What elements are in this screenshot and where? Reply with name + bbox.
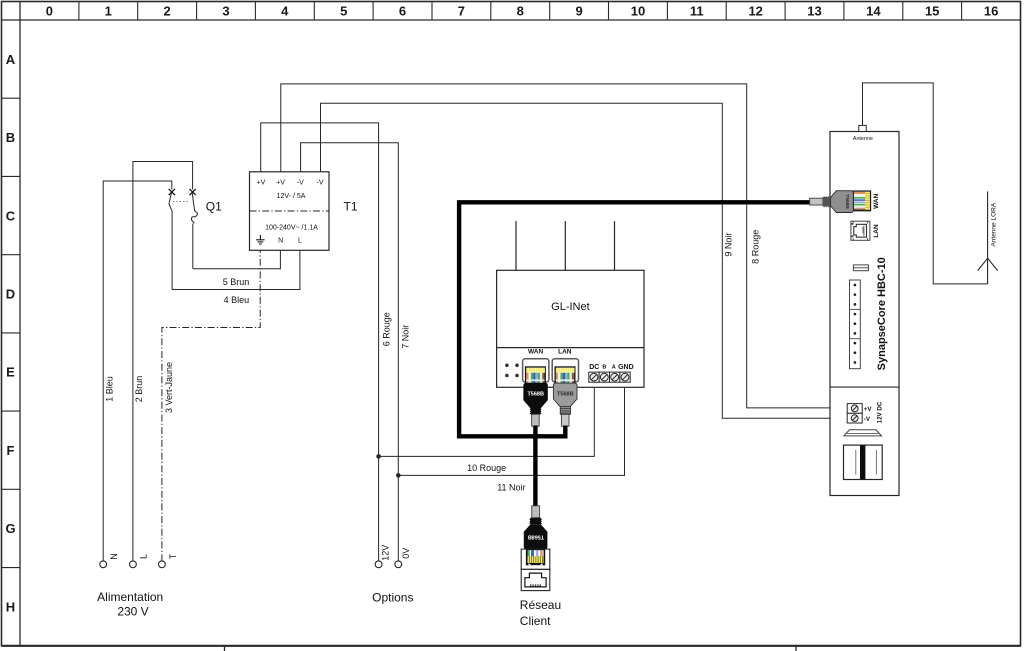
SynapseCore WAN plug T568B (grey, from left) [810, 198, 823, 205]
svg-text:2 Brun: 2 Brun [134, 376, 144, 403]
junction node on 7 Noir [396, 473, 401, 478]
svg-text:8: 8 [517, 4, 524, 19]
terminal T [159, 561, 166, 568]
svg-text:Antenne: Antenne [853, 136, 873, 142]
GL-INet WAN RJ45 jack [523, 359, 549, 382]
svg-text:LAN: LAN [558, 349, 572, 356]
svg-text:12V DC: 12V DC [877, 401, 884, 423]
svg-text:L: L [139, 554, 149, 559]
svg-text:10: 10 [631, 4, 645, 19]
LAN plug T568B (grey) [553, 383, 577, 407]
svg-text:100-240V~ /1.1A: 100-240V~ /1.1A [265, 225, 318, 232]
svg-text:9: 9 [575, 4, 582, 19]
SynapseCore WAN port (colored) [853, 191, 870, 211]
GL-INet antenna stubs [516, 221, 615, 270]
svg-text:1 Bleu: 1 Bleu [105, 376, 115, 402]
svg-text:DC: DC [589, 364, 599, 371]
GL-INet panel LED dots [505, 364, 519, 378]
SynapseCore HBC-10 box [830, 132, 899, 496]
GL-INet LAN RJ45 jack [552, 359, 578, 382]
WAN plug T568B (black) [524, 383, 548, 408]
svg-text:A: A [6, 52, 16, 67]
wire 5 Brun (right pole to T1 N pin) [193, 250, 281, 268]
GL-INet screw terminal block DC B A GND [589, 372, 630, 382]
svg-text:A: A [612, 364, 616, 370]
client coupler lower half (empty RJ45 socket) [521, 569, 550, 590]
svg-text:4: 4 [281, 4, 289, 19]
wire +V pin2 to 8 Rouge riser [281, 84, 847, 408]
svg-text:LAN: LAN [873, 224, 880, 238]
wire 4 Bleu (left pole to T1 L pin) [172, 250, 300, 289]
svg-text:5 Brun: 5 Brun [223, 277, 250, 287]
svg-text:F: F [7, 443, 15, 458]
svg-text:5: 5 [340, 4, 347, 19]
ethernet cable LAN to SynapseCore WAN (heavy) [459, 202, 811, 436]
SynapseCore LAN jack icon [851, 221, 870, 240]
svg-text:SynapseCore HBC-10: SynapseCore HBC-10 [876, 257, 888, 370]
svg-text:12V: 12V [381, 545, 391, 561]
client plug ferrule and boot [532, 506, 540, 518]
svg-text:7 Noir: 7 Noir [401, 325, 411, 349]
svg-text:L: L [298, 238, 302, 245]
svg-text:T568B: T568B [844, 194, 850, 209]
terminal 0V [395, 561, 402, 568]
client plug T568B body (black, inverted) [524, 524, 548, 549]
svg-text:11: 11 [690, 4, 704, 19]
client coupler divider [521, 568, 550, 570]
terminal 12V [375, 561, 382, 568]
SynapseCore pin connector strip [850, 280, 861, 369]
svg-text:0: 0 [46, 4, 53, 19]
svg-text:3 Vert-Jaune: 3 Vert-Jaune [164, 362, 174, 413]
svg-text:+V: +V [276, 179, 285, 186]
breaker Q1 left pole X terminal [169, 189, 175, 195]
wire T earth dash-dot (terminal T to T1 ground pin) [162, 250, 260, 561]
antenna coax wire to LORA antenna [863, 83, 988, 284]
svg-text:+V: +V [257, 179, 266, 186]
svg-text:B: B [602, 364, 606, 370]
svg-text:2: 2 [163, 4, 170, 19]
breaker Q1 right pole arm [192, 193, 195, 211]
terminal L [130, 561, 137, 568]
svg-text:14: 14 [866, 4, 881, 19]
router GL-INet box [497, 270, 644, 387]
breaker Q1 mechanical link (dotted) [173, 201, 189, 203]
svg-text:N: N [109, 553, 119, 560]
svg-text:-V: -V [864, 416, 871, 423]
svg-text:WAN: WAN [528, 349, 543, 356]
svg-text:D: D [6, 287, 15, 302]
SynapseCore SIM slot [853, 265, 868, 271]
svg-text:4 Bleu: 4 Bleu [224, 295, 250, 305]
T1 pin labels N L [278, 238, 302, 245]
svg-text:Q1: Q1 [206, 199, 222, 213]
svg-text:T1: T1 [344, 200, 358, 214]
antenne LORA symbol [978, 191, 998, 284]
svg-text:15: 15 [925, 4, 939, 19]
svg-text:T568B: T568B [527, 391, 544, 397]
ethernet cable WAN to client (heavy) [533, 426, 537, 507]
breaker Q1 thermal element [191, 211, 197, 223]
svg-text:T: T [168, 553, 178, 559]
svg-text:10 Rouge: 10 Rouge [467, 463, 506, 473]
junction node on 6 Rouge [376, 454, 381, 459]
svg-text:B: B [6, 130, 15, 145]
T1 earth symbol [256, 235, 264, 244]
svg-text:N: N [278, 238, 283, 245]
svg-text:0V: 0V [401, 548, 411, 559]
labels DC B A GND [589, 364, 633, 371]
svg-text:Options: Options [372, 590, 413, 604]
antenna connector stub on top [859, 125, 866, 131]
wire 10 Rouge (12V to GL-INet DC) [379, 382, 595, 456]
terminal N [100, 561, 107, 568]
svg-text:16: 16 [984, 4, 998, 19]
wire 11 Noir (0V to GL-INet GND) [398, 382, 624, 475]
wire +V pin1 to 6 Rouge / 12V terminal [261, 123, 379, 561]
SynapseCore flap cover [844, 430, 882, 436]
svg-text:Réseau: Réseau [520, 598, 561, 612]
svg-text:11 Noir: 11 Noir [497, 483, 525, 493]
svg-text:Alimentation: Alimentation [97, 590, 163, 604]
wire -V pin4 to 9 Noir riser [321, 103, 848, 418]
svg-text:12: 12 [748, 4, 762, 19]
svg-text:WAN: WAN [873, 193, 880, 208]
SynapseCore +V -V screw terminals [847, 404, 862, 423]
breaker Q1 right pole conductor [192, 224, 194, 269]
svg-text:-V: -V [297, 179, 304, 186]
svg-text:6: 6 [399, 4, 406, 19]
svg-text:9 Noir: 9 Noir [724, 233, 734, 257]
svg-text:E: E [6, 365, 15, 380]
svg-text:GL-INet: GL-INet [551, 301, 590, 313]
svg-text:12V- / 5A: 12V- / 5A [277, 193, 306, 200]
wire N feed (terminal N to breaker left pole) [103, 181, 172, 561]
svg-text:3: 3 [222, 4, 229, 19]
svg-text:6 Rouge: 6 Rouge [381, 312, 391, 346]
SynapseCore lower port with black stripe [844, 445, 883, 479]
svg-text:G: G [5, 521, 15, 536]
svg-text:230 V: 230 V [117, 604, 148, 618]
svg-text:+V: +V [864, 406, 873, 413]
svg-text:Antenne LORA: Antenne LORA [990, 202, 997, 246]
client coupler upper half (plug seated) [521, 549, 550, 569]
power supply T1 box [250, 172, 330, 251]
svg-text:1: 1 [105, 4, 112, 19]
svg-text:-V: -V [317, 179, 324, 186]
svg-text:T568B: T568B [528, 534, 545, 540]
wire L feed (terminal L to breaker right pole) [133, 162, 193, 562]
svg-text:Client: Client [520, 614, 551, 628]
breaker Q1 right pole X terminal [190, 189, 196, 195]
svg-text:T568B: T568B [557, 391, 574, 397]
breaker Q1 left pole arm and conductor [169, 193, 172, 290]
svg-text:7: 7 [458, 4, 465, 19]
svg-text:H: H [6, 599, 15, 614]
T1 pin labels +V +V -V -V [257, 179, 324, 186]
wire -V pin3 to 7 Noir / 0V terminal [301, 143, 399, 562]
svg-text:C: C [6, 208, 16, 223]
svg-text:GND: GND [618, 364, 634, 371]
svg-text:13: 13 [807, 4, 821, 19]
svg-text:8 Rouge: 8 Rouge [751, 230, 761, 264]
